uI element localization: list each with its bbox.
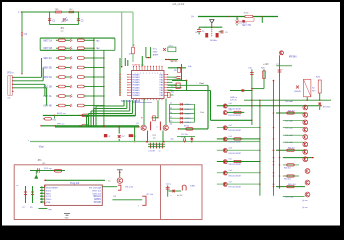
svg-text:x: x <box>72 86 73 88</box>
svg-text:R49 2k2: R49 2k2 <box>284 178 291 180</box>
svg-text:GND: GND <box>153 52 158 54</box>
svg-text:PB4/AIN: PB4/AIN <box>132 84 140 87</box>
svg-text:x: x <box>72 105 73 107</box>
svg-text:LED1 rt: LED1 rt <box>185 108 192 111</box>
svg-text:Ox3: Ox3 <box>229 136 232 138</box>
svg-text:R34 2k2 BC337: R34 2k2 BC337 <box>229 153 242 155</box>
svg-text:Ox2: Ox2 <box>229 125 232 127</box>
svg-text:Ox4: Ox4 <box>229 147 232 149</box>
svg-text:22p: 22p <box>170 139 173 141</box>
svg-text:GND in: GND in <box>230 97 238 99</box>
svg-text:LED4 rt: LED4 rt <box>185 121 192 124</box>
svg-text:Ox5: Ox5 <box>229 159 232 161</box>
svg-text:MISO: MISO <box>46 193 52 195</box>
svg-text:R7 z1k: R7 z1k <box>147 194 154 196</box>
svg-text:PB5/AIN: PB5/AIN <box>132 86 140 89</box>
svg-text:x: x <box>72 48 73 50</box>
svg-text:PB3/AIN: PB3/AIN <box>132 81 140 84</box>
svg-text:M2 = 5V: M2 = 5V <box>242 25 251 27</box>
svg-text:R37 2k2 BC337: R37 2k2 BC337 <box>229 187 242 189</box>
svg-text:MOT 1A: MOT 1A <box>44 39 53 42</box>
svg-text:R32 2k2 BC337: R32 2k2 BC337 <box>229 130 242 132</box>
svg-text:Ox5 xxAx: Ox5 xxAx <box>285 141 293 144</box>
svg-text:Ox11 xxAx: Ox11 xxAx <box>285 196 294 199</box>
svg-text:BUZZ out: BUZZ out <box>57 112 66 115</box>
svg-text:PB1/AIN: PB1/AIN <box>132 76 140 79</box>
svg-text:1: 1 <box>143 73 144 75</box>
svg-text:Q4: Q4 <box>170 124 173 126</box>
svg-text:LS1 8R: LS1 8R <box>149 151 156 153</box>
svg-text:JP5: JP5 <box>42 163 45 165</box>
svg-text:PB7/AIN: PB7/AIN <box>132 92 140 95</box>
svg-text:R48 2k2: R48 2k2 <box>284 167 291 169</box>
svg-text:LED0 rt: LED0 rt <box>185 103 192 106</box>
svg-text:16 MHz: 16 MHz <box>210 40 217 42</box>
svg-text:x: x <box>138 206 139 208</box>
svg-text:pwr: pwr <box>61 31 64 33</box>
svg-text:12V dc: 12V dc <box>230 100 238 102</box>
svg-text:GND0: GND0 <box>46 199 52 201</box>
svg-text:x: x <box>72 58 73 60</box>
svg-text:R33 2k2 BC337: R33 2k2 BC337 <box>229 142 242 144</box>
svg-text:1: 1 <box>137 73 138 75</box>
svg-text:1: 1 <box>146 73 147 75</box>
svg-text:Ox0 xxAx: Ox0 xxAx <box>285 100 293 103</box>
svg-text:R410 2k2: R410 2k2 <box>288 184 296 186</box>
svg-text:PDI 5GVCAA: PDI 5GVCAA <box>89 187 102 190</box>
svg-text:1: 1 <box>160 73 161 75</box>
svg-text:Ox7: Ox7 <box>229 181 232 183</box>
svg-text:IRF540: IRF540 <box>289 57 297 59</box>
svg-text:C20 u: C20 u <box>166 184 171 186</box>
svg-text:LED2 rt: LED2 rt <box>185 112 192 115</box>
svg-text:x: x <box>72 77 73 79</box>
svg-text:PB8/AIN: PB8/AIN <box>132 94 140 97</box>
svg-text:KEY 4B: KEY 4B <box>44 106 52 108</box>
svg-text:Qx xxx: Qx xxx <box>302 207 308 209</box>
svg-text:RLY: RLY <box>312 90 316 92</box>
svg-text:Dx: Dx <box>170 112 172 114</box>
svg-text:R6 z21k: R6 z21k <box>125 186 134 188</box>
svg-text:+12V: +12V <box>263 63 269 66</box>
svg-text:hdr: hdr <box>8 98 11 100</box>
svg-text:xx: xx <box>159 151 161 153</box>
svg-text:AREF: AREF <box>153 54 159 57</box>
svg-text:ADC 3A: ADC 3A <box>44 76 53 79</box>
svg-text:MOT 1B: MOT 1B <box>44 48 53 50</box>
svg-text:sch_v1.brd: sch_v1.brd <box>173 3 185 6</box>
svg-text:1: 1 <box>135 73 136 75</box>
svg-text:Dx: Dx <box>170 121 172 123</box>
svg-text:1: 1 <box>140 73 141 75</box>
svg-text:R41 2k2: R41 2k2 <box>288 110 295 112</box>
svg-text:Ox1: Ox1 <box>229 110 232 112</box>
svg-text:GND: GND <box>65 218 70 220</box>
svg-text:D9 LED: D9 LED <box>323 107 331 109</box>
svg-text:1: 1 <box>152 73 153 75</box>
svg-text:Ox6: Ox6 <box>229 170 232 172</box>
svg-text:PB0/AIN: PB0/AIN <box>132 73 140 76</box>
svg-text:x: x <box>171 195 172 197</box>
svg-text:1: 1 <box>157 73 158 75</box>
svg-text:x: x <box>72 96 73 98</box>
svg-text:Ox0: Ox0 <box>229 103 232 105</box>
svg-text:R11: R11 <box>171 92 174 94</box>
svg-text:SEN 2B: SEN 2B <box>44 68 53 70</box>
svg-text:STK85: STK85 <box>94 201 102 204</box>
svg-text:nRST 104: nRST 104 <box>92 190 102 192</box>
svg-text:R8 1k: R8 1k <box>184 125 189 127</box>
svg-text:Dx: Dx <box>170 117 172 119</box>
svg-text:Qx xxx: Qx xxx <box>302 200 308 202</box>
svg-text:R36 2k2 BC337: R36 2k2 BC337 <box>229 175 242 177</box>
svg-text:x: x <box>72 40 73 42</box>
svg-text:D2 5V1: D2 5V1 <box>240 23 248 25</box>
svg-text:bz^5V: bz^5V <box>177 194 183 197</box>
svg-text:SPK out: SPK out <box>57 123 65 126</box>
svg-text:1: 1 <box>149 73 150 75</box>
svg-text:VCC5: VCC5 <box>46 196 52 198</box>
svg-text:SEN 2A: SEN 2A <box>44 57 53 60</box>
svg-text:SV1 isp: SV1 isp <box>44 168 52 170</box>
svg-text:MOSI RESET: MOSI RESET <box>46 188 59 190</box>
svg-text:x: x <box>28 140 29 142</box>
svg-text:Ox2 xxAx: Ox2 xxAx <box>285 119 293 122</box>
svg-text:x: x <box>72 67 73 69</box>
svg-text:Ox4 xxAx: Ox4 xxAx <box>285 134 293 137</box>
svg-text:1: 1 <box>154 73 155 75</box>
svg-text:SCK1: SCK1 <box>46 190 52 192</box>
svg-text:Vbat: Vbat <box>39 146 44 149</box>
svg-text:Pxxl: Pxxl <box>200 83 205 85</box>
svg-text:D8N: D8N <box>190 186 195 188</box>
svg-text:Pxxl: Pxxl <box>200 112 205 114</box>
svg-text:xx: xx <box>16 185 18 187</box>
svg-text:R31 2k2 BC337: R31 2k2 BC337 <box>229 115 242 117</box>
svg-text:R35 2k2 BC337: R35 2k2 BC337 <box>229 164 242 166</box>
svg-text:LED3 rt: LED3 rt <box>185 117 192 120</box>
svg-text:F201: F201 <box>244 13 250 15</box>
svg-text:PB2/AIN: PB2/AIN <box>132 79 140 82</box>
svg-text:|HCT|: |HCT| <box>171 61 177 63</box>
svg-text:Dx: Dx <box>170 103 172 105</box>
svg-text:VCC: VCC <box>153 49 158 51</box>
svg-text:PB6/AIN: PB6/AIN <box>132 89 140 92</box>
svg-text:spk: spk <box>153 138 156 140</box>
svg-text:JP2 in: JP2 in <box>7 73 14 75</box>
svg-text:Prog intf: Prog intf <box>70 182 79 185</box>
svg-text:Dx: Dx <box>170 108 172 110</box>
svg-text:1N4148: 1N4148 <box>294 91 301 93</box>
svg-text:R46 2k2: R46 2k2 <box>288 148 295 150</box>
svg-text:Q3: Q3 <box>136 123 139 125</box>
svg-text:Ox3 xxAx: Ox3 xxAx <box>285 127 293 130</box>
